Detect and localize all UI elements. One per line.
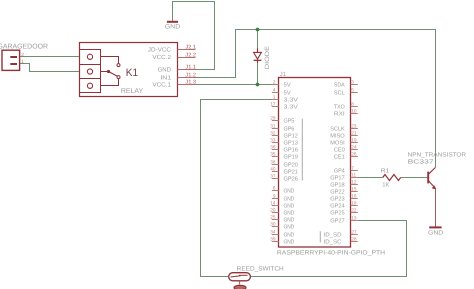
diode D1 [257, 48, 259, 52]
svg-text:33: 33 [270, 138, 276, 143]
svg-text:REED_SWITCH: REED_SWITCH [237, 265, 284, 272]
svg-text:1: 1 [21, 59, 24, 65]
svg-text:29: 29 [270, 116, 276, 121]
svg-text:VCC.1: VCC.1 [152, 82, 171, 89]
header J1 pin 32 (GP12) left stub [272, 135, 279, 137]
relay switch blade [109, 72, 118, 77]
svg-text:25: 25 [270, 215, 276, 220]
svg-text:40: 40 [270, 167, 276, 172]
wire GP17 (pin11) to R1 [358, 177, 383, 179]
svg-text:27: 27 [351, 229, 357, 234]
wire 3.3V (header pin17) down-left to reed switch [201, 100, 273, 277]
svg-text:2: 2 [21, 52, 24, 58]
svg-text:2: 2 [273, 80, 276, 85]
relay pin stub / net J1.2 [178, 77, 196, 79]
svg-text:1: 1 [273, 95, 276, 100]
ground (below transistor) [429, 226, 441, 228]
svg-text:31: 31 [270, 124, 276, 129]
svg-text:9: 9 [273, 194, 276, 199]
header J1 pin 3 (SDA) right stub [351, 84, 358, 86]
svg-text:13: 13 [351, 215, 357, 220]
wire VCC.1 net: relay J1.3 to header pin 2 (5V) [194, 84, 272, 86]
wire R1 to transistor base [401, 177, 428, 179]
svg-text:GARAGEDOOR: GARAGEDOOR [0, 44, 48, 51]
svg-text:J2.2: J2.2 [185, 53, 196, 59]
svg-text:GND: GND [284, 188, 295, 195]
transistor Q1 NPN BC337 [427, 172, 429, 184]
svg-text:GP26: GP26 [284, 176, 298, 183]
header J1 pin 5 (SCL) right stub [351, 92, 358, 94]
header J1 pin 8 (TXO) right stub [351, 106, 358, 108]
pin 1 pad of GARAGEDOOR [10, 63, 17, 65]
svg-text:SDA: SDA [334, 82, 345, 89]
svg-text:GP18: GP18 [330, 182, 344, 189]
svg-text:K1: K1 [126, 67, 138, 79]
svg-text:15: 15 [351, 186, 357, 191]
header J1 pin 33 (GP13) left stub [272, 142, 279, 144]
svg-text:J1.2: J1.2 [185, 73, 196, 79]
header J1 pin 29 (GP5) left stub [272, 120, 279, 122]
svg-text:GND: GND [284, 239, 295, 246]
svg-text:SCL: SCL [334, 90, 346, 97]
wire IN1 net: relay J1.2 up to diode cathode and across to transistor collector [194, 30, 436, 168]
header J1 pin 27 (ID_SD) right stub [351, 234, 358, 236]
svg-text:21: 21 [351, 130, 357, 135]
relay switch contacts [101, 57, 119, 64]
wire diode vertical net segments [257, 30, 259, 49]
header J1 pin 15 (GP22) right stub [351, 191, 358, 193]
header J1 pin 11 (GP17) right stub [351, 177, 358, 179]
wire GND net: relay J1.1 to top GND symbol [173, 2, 215, 70]
svg-text:3: 3 [351, 79, 354, 84]
header J1 pin 19 (MOSI) right stub [351, 142, 358, 144]
svg-text:J2.1: J2.1 [185, 45, 196, 51]
svg-text:19: 19 [351, 137, 357, 142]
svg-text:39: 39 [270, 237, 276, 242]
header J1 pin 35 (GP19) left stub [272, 156, 279, 158]
wire garagedoor pin1 to relay middle terminal [20, 64, 80, 72]
header J1 pin 40 (GP21) left stub [272, 171, 279, 173]
svg-text:16: 16 [351, 193, 357, 198]
header J1 pin 9 (GND) left stub [272, 198, 279, 200]
relay terminal strip [80, 50, 101, 93]
svg-text:R1: R1 [381, 167, 390, 174]
header internal group bar (id pins) [319, 231, 321, 242]
wire reed switch right to header GP27 (pin13) [250, 221, 406, 277]
relay terminal screws [87, 54, 92, 59]
svg-text:MISO: MISO [330, 133, 345, 140]
header J1 pin 6 (GND) left stub [272, 190, 279, 192]
svg-text:1K: 1K [382, 181, 389, 188]
svg-text:10: 10 [351, 108, 357, 113]
connector GARAGEDOOR [2, 50, 20, 70]
svg-text:35: 35 [270, 152, 276, 157]
relay K1 body [80, 43, 178, 97]
svg-text:GND: GND [284, 217, 295, 224]
header J1 pin 38 (GP20) left stub [272, 164, 279, 166]
svg-text:GP12: GP12 [284, 133, 298, 140]
header internal group bar (gpio) [301, 119, 303, 181]
svg-text:GP27: GP27 [330, 218, 344, 225]
svg-text:GND: GND [284, 203, 295, 210]
svg-text:32: 32 [270, 131, 276, 136]
svg-text:6: 6 [273, 186, 276, 191]
ground (top, near relay) [172, 17, 174, 21]
header J1 pin 20 (GND) left stub [272, 212, 279, 214]
svg-text:GP5: GP5 [284, 118, 295, 125]
header J1 pin 16 (GP23) right stub [351, 198, 358, 200]
svg-text:GP19: GP19 [284, 154, 298, 161]
svg-text:23: 23 [351, 123, 357, 128]
reed switch S1 [229, 273, 251, 281]
svg-text:GND: GND [428, 230, 444, 237]
svg-text:RELAY: RELAY [121, 88, 144, 95]
svg-text:28: 28 [351, 236, 357, 241]
svg-text:RXI: RXI [334, 112, 345, 118]
svg-text:8: 8 [351, 101, 354, 106]
svg-text:GP22: GP22 [330, 189, 344, 196]
svg-text:GND: GND [284, 210, 295, 217]
svg-text:30: 30 [270, 222, 276, 227]
header J1 pin 26 (CE1) right stub [351, 156, 358, 158]
svg-text:GP16: GP16 [284, 147, 298, 154]
svg-text:GND: GND [165, 24, 181, 31]
svg-text:7: 7 [351, 165, 354, 170]
header J1 pin 39 (GND) left stub [272, 241, 279, 243]
pin 2 pad of GARAGEDOOR [10, 56, 17, 58]
header J1 pin 12 (GP18) right stub [351, 184, 358, 186]
svg-text:JD-VCC: JD-VCC [148, 47, 172, 54]
svg-text:NPN_TRANSISTOR: NPN_TRANSISTOR [408, 152, 467, 159]
svg-text:24: 24 [351, 144, 357, 149]
svg-text:14: 14 [270, 201, 276, 206]
wire garagedoor pin2 to relay top terminal [20, 56, 80, 58]
relay pin stub / net J1.1 [178, 69, 196, 71]
header J1 pin 4 (5V) left stub [272, 92, 279, 94]
svg-text:18: 18 [351, 200, 357, 205]
svg-text:38: 38 [270, 160, 276, 165]
header J1 pin 14 (GND) left stub [272, 205, 279, 207]
header J1 pin 18 (GP24) right stub [351, 205, 358, 207]
svg-text:J1.3: J1.3 [185, 80, 196, 86]
header J1 pin 21 (MISO) right stub [351, 135, 358, 137]
svg-text:17: 17 [270, 102, 276, 107]
svg-text:BC337: BC337 [408, 159, 435, 166]
header J1 pin 31 (GP6) left stub [272, 128, 279, 130]
connector J1 RASPBERRYPI-40-PIN-GPIO_PTH body [279, 78, 351, 248]
header J1 pin 1 (3.3V) left stub [272, 99, 279, 101]
header J1 pin 10 (RXI) right stub [351, 113, 358, 115]
svg-text:J1: J1 [280, 71, 287, 78]
svg-text:4: 4 [273, 88, 276, 93]
svg-text:22: 22 [351, 207, 357, 212]
header J1 pin 2 (5V) left stub [272, 84, 279, 86]
svg-text:GP13: GP13 [284, 140, 298, 147]
svg-text:5V: 5V [284, 83, 291, 89]
header J1 pin 30 (GND) left stub [272, 226, 279, 228]
svg-text:GP6: GP6 [284, 126, 295, 133]
header J1 pin 24 (CE0) right stub [351, 149, 358, 151]
svg-text:GP17: GP17 [330, 175, 344, 182]
header J1 pin 7 (GP4) right stub [351, 170, 358, 172]
svg-text:ID_SD: ID_SD [324, 232, 342, 239]
svg-text:GP23: GP23 [330, 196, 344, 203]
svg-text:MOSI: MOSI [330, 140, 345, 147]
svg-text:CE0: CE0 [334, 147, 345, 154]
svg-text:IN1: IN1 [160, 75, 171, 82]
svg-text:11: 11 [351, 172, 356, 177]
svg-text:ID_SC: ID_SC [324, 239, 342, 246]
svg-text:SCLK: SCLK [330, 126, 345, 133]
svg-text:DIODE: DIODE [264, 46, 271, 69]
svg-text:3.3V: 3.3V [284, 97, 299, 104]
header J1 pin 22 (GP25) right stub [351, 212, 358, 214]
svg-text:12: 12 [351, 179, 357, 184]
relay pin stub / net J2.2 [178, 57, 196, 59]
svg-text:GND: GND [284, 224, 295, 231]
svg-text:3.3V: 3.3V [284, 104, 299, 111]
svg-text:CE1: CE1 [334, 154, 345, 161]
relay pin stub / net J1.3 [178, 84, 196, 86]
svg-text:GP20: GP20 [284, 162, 298, 169]
svg-text:RASPBERRYPI-40-PIN-GPIO_PTH: RASPBERRYPI-40-PIN-GPIO_PTH [277, 250, 385, 257]
svg-text:GP24: GP24 [330, 203, 345, 210]
node junction: diode anode / 5V net [256, 83, 260, 87]
relay pin stub / net J2.1 [178, 49, 196, 51]
header J1 pin 34 (GND) left stub [272, 234, 279, 236]
ground (below reed switch, clipped) [239, 281, 241, 284]
svg-text:GP21: GP21 [284, 169, 298, 176]
svg-text:GND: GND [158, 67, 172, 74]
svg-text:TXO: TXO [334, 104, 345, 111]
header J1 pin 17 (3.3V) left stub [272, 106, 279, 108]
header J1 pin 36 (GP16) left stub [272, 149, 279, 151]
svg-text:GP4: GP4 [334, 168, 346, 175]
node junction: diode cathode / IN1 net [256, 28, 260, 32]
svg-text:VCC.2: VCC.2 [152, 54, 171, 61]
svg-text:26: 26 [351, 151, 357, 156]
svg-text:37: 37 [270, 174, 276, 179]
svg-text:GP25: GP25 [330, 210, 344, 217]
svg-text:20: 20 [270, 208, 276, 213]
header J1 pin 13 (GP27) right stub [351, 220, 358, 222]
header J1 pin 23 (SCLK) right stub [351, 128, 358, 130]
svg-text:34: 34 [270, 230, 276, 235]
wire transistor emitter to GND [435, 189, 437, 227]
header J1 pin 37 (GP26) left stub [272, 178, 279, 180]
svg-text:5V: 5V [284, 91, 291, 97]
svg-text:5: 5 [351, 87, 354, 92]
header J1 pin 25 (GND) left stub [272, 219, 279, 221]
svg-text:J1.1: J1.1 [185, 65, 196, 71]
svg-text:GND: GND [284, 232, 295, 239]
svg-text:GND: GND [284, 196, 295, 203]
resistor R1 1K [383, 175, 401, 181]
svg-text:36: 36 [270, 145, 276, 150]
header J1 pin 28 (ID_SC) right stub [351, 241, 358, 243]
